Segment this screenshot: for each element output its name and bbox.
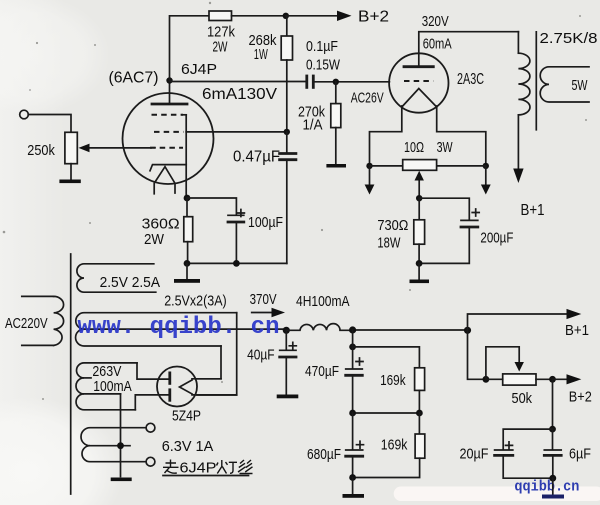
wire plate to coupling cap bbox=[170, 81, 307, 83]
ground (cathode bus) bbox=[174, 279, 200, 283]
svg-text:680µF: 680µF bbox=[307, 446, 341, 463]
anode bar 2 (5Z4P) bbox=[168, 390, 171, 401]
svg-text:0.47µF: 0.47µF bbox=[233, 149, 280, 166]
wire cap to 2A3C grid bbox=[313, 81, 389, 83]
svg-text:6mA130V: 6mA130V bbox=[202, 86, 277, 103]
wire screen node to 268k/0.47uF junction bbox=[186, 131, 287, 133]
underline (Chinese note) bbox=[163, 475, 249, 477]
resistor 360R 2W (cathode) bbox=[184, 198, 193, 263]
OPT core line bbox=[535, 32, 537, 130]
svg-text:6J4P: 6J4P bbox=[181, 61, 217, 78]
svg-text:2.5Vx2(3A): 2.5Vx2(3A) bbox=[164, 293, 227, 310]
anode plate bar (6AC7) bbox=[152, 103, 187, 106]
wire filament bottom lead down to 5Z4P bbox=[197, 346, 221, 379]
svg-text:250k: 250k bbox=[27, 142, 55, 159]
svg-text:www. qqibb. cn: www. qqibb. cn bbox=[78, 314, 280, 341]
Chinese strokes: deng si bbox=[217, 460, 253, 474]
potentiometer 250k body bbox=[65, 132, 77, 163]
tube 6AC7/6J4P envelope circle bbox=[123, 93, 214, 184]
capacitor 680uF bbox=[346, 413, 363, 478]
wire hum pot left lead bbox=[370, 165, 403, 167]
plus mark (470uF) bbox=[356, 358, 363, 365]
svg-text:(6AC7): (6AC7) bbox=[109, 70, 159, 87]
svg-text:5Z4P: 5Z4P bbox=[172, 408, 201, 425]
arrow down (filament supply left) bbox=[365, 166, 375, 195]
ground (filter ladder) bbox=[343, 494, 365, 498]
filament (2A3C) bbox=[402, 89, 437, 108]
resistor 127k 2W body bbox=[209, 11, 232, 21]
wire cathode return bus bbox=[187, 262, 287, 264]
node hum pot left bbox=[366, 163, 372, 169]
arrow 370V (right) bbox=[252, 308, 285, 318]
wire ground stub (bias) bbox=[418, 263, 420, 279]
winding 6.3V 1A (6J4P heater) bbox=[81, 428, 146, 462]
resistor 268k 1W (vertical) bbox=[281, 16, 292, 132]
node wiper 10R bbox=[416, 195, 422, 201]
plus mark (40uF) bbox=[289, 342, 296, 349]
paper specks bbox=[3, 2, 587, 400]
hum pot wiper arrow (up) bbox=[415, 171, 424, 198]
wire pot bottom lead bbox=[70, 164, 72, 180]
terminal circle 6.3V bottom bbox=[146, 457, 155, 466]
plus mark (200uF) bbox=[472, 209, 479, 216]
potentiometer 50k body bbox=[503, 374, 536, 385]
wire 127k to B+2 node bbox=[232, 15, 286, 17]
node 50k left bbox=[483, 376, 490, 383]
wire 50k right lead bbox=[536, 378, 553, 380]
svg-text:1/A: 1/A bbox=[303, 117, 323, 134]
svg-text:18W: 18W bbox=[377, 235, 401, 252]
svg-text:4H100mA: 4H100mA bbox=[296, 293, 350, 310]
wire ground stub (cathode bus) bbox=[186, 263, 188, 279]
grid dashes g2 row (6AC7) bbox=[154, 131, 184, 133]
wire wiper to 200uF bbox=[419, 198, 469, 220]
node cathode bus left bbox=[184, 260, 191, 267]
wire main B+ line bbox=[353, 329, 468, 331]
wire ground stub (output filter) bbox=[552, 478, 554, 494]
svg-text:AC26V: AC26V bbox=[351, 90, 384, 107]
wire riser down to 50k bbox=[468, 330, 486, 379]
svg-text:2W: 2W bbox=[213, 39, 229, 56]
svg-text:2.5V 2.5A: 2.5V 2.5A bbox=[100, 274, 160, 291]
svg-text:470µF: 470µF bbox=[305, 363, 339, 380]
plus mark (100uF) bbox=[237, 210, 244, 217]
wire filament lower lead (5Z4P) bbox=[192, 394, 237, 396]
wire mid rung bbox=[353, 412, 420, 414]
svg-text:20µF: 20µF bbox=[460, 446, 489, 463]
node plate 6AC7 bbox=[166, 77, 172, 83]
svg-text:6µF: 6µF bbox=[569, 446, 591, 463]
output transformer primary winding bbox=[518, 32, 530, 115]
node 6.3V centre tap bbox=[117, 442, 124, 449]
input terminal bbox=[20, 110, 29, 119]
ground (40uF) bbox=[277, 395, 299, 399]
winding 263V 100mA (HT) bbox=[76, 363, 137, 410]
node mid rung right bbox=[416, 410, 423, 417]
filament left leg to hum pot bbox=[370, 106, 402, 166]
svg-text:100mA: 100mA bbox=[93, 378, 131, 395]
wire 20uF loop from B+2 node bbox=[552, 379, 554, 429]
node 680uF bottom bbox=[349, 474, 356, 481]
svg-text:3W: 3W bbox=[437, 139, 454, 156]
heater filament (6AC7) bbox=[154, 167, 175, 194]
svg-text:2W: 2W bbox=[144, 231, 165, 248]
winding 2.5V 2.5A (2A3 filament) bbox=[77, 264, 156, 292]
svg-text:60mA: 60mA bbox=[423, 35, 452, 52]
tube 5Z4P envelope circle bbox=[157, 367, 197, 407]
node rectifier output / 40uF bbox=[283, 327, 290, 334]
node grid 2A3C bbox=[333, 79, 339, 85]
Chinese note: to 6J4P heater (drawn strokes) bbox=[163, 460, 179, 474]
resistor 169k upper bbox=[415, 368, 425, 413]
arrow to B+2 (top) bbox=[286, 11, 352, 21]
grid dashes (2A3C) bbox=[404, 80, 433, 82]
node screen junction bbox=[284, 129, 290, 135]
arrow down to B+1 (OPT) bbox=[513, 115, 523, 183]
svg-text:169k: 169k bbox=[380, 372, 406, 389]
capacitor 6uF bbox=[544, 429, 561, 478]
svg-text:6J4P: 6J4P bbox=[180, 460, 217, 477]
node choke out bbox=[349, 326, 356, 333]
wire input to pot top bbox=[28, 115, 71, 133]
pot 250k wiper arrow to grid wire bbox=[79, 144, 152, 153]
ground (transformer centre taps) bbox=[111, 478, 132, 482]
capacitor 200uF bbox=[419, 220, 478, 263]
wire filament top lead down to 5Z4P bbox=[197, 313, 237, 395]
potentiometer 10R 3W body bbox=[403, 160, 437, 171]
resistor 270k 1/A (grid leak) bbox=[331, 82, 341, 164]
node cathode bus right bbox=[233, 260, 240, 267]
svg-text:200µF: 200µF bbox=[480, 230, 513, 247]
wire plate node up to B+2 rail bbox=[170, 16, 210, 81]
svg-text:0.15W: 0.15W bbox=[306, 57, 341, 74]
plus mark (20uF) bbox=[506, 442, 513, 449]
node 20uF loop top bbox=[549, 426, 556, 433]
svg-text:AC220V: AC220V bbox=[5, 315, 48, 332]
output transformer secondary winding bbox=[540, 67, 589, 102]
ground (bias network) bbox=[410, 280, 430, 284]
svg-text:5W: 5W bbox=[572, 77, 589, 94]
wire HT centre tap down to ground bbox=[120, 394, 122, 477]
svg-text:169k: 169k bbox=[381, 437, 408, 454]
wire 50k left lead bbox=[486, 378, 503, 380]
svg-text:360Ω: 360Ω bbox=[142, 216, 180, 233]
tube 2A3C envelope circle bbox=[389, 53, 448, 112]
svg-text:40µF: 40µF bbox=[247, 347, 275, 364]
stub g3 to internal vertical bbox=[182, 114, 186, 116]
wire HT bottom lead to plate 2 bbox=[135, 395, 169, 410]
terminal circle 6.3V top bbox=[146, 423, 155, 432]
svg-text:2.75K/8: 2.75K/8 bbox=[540, 30, 598, 47]
svg-text:730Ω: 730Ω bbox=[377, 217, 408, 234]
node hum pot right bbox=[483, 163, 489, 169]
arrow to B+1 (right) bbox=[468, 309, 582, 330]
wire cathode to 100uF bbox=[187, 198, 236, 215]
node cathode 6AC7 bbox=[184, 195, 191, 202]
node output filter bottom bbox=[549, 475, 556, 482]
svg-text:0.1µF: 0.1µF bbox=[306, 38, 338, 55]
plate lead up to node bbox=[169, 81, 171, 105]
filament right leg to hum pot bbox=[437, 106, 486, 166]
arrow to B+2 (right) bbox=[553, 374, 582, 384]
cathode sleeve line (6AC7) bbox=[150, 165, 186, 171]
filament chevron (5Z4P) bbox=[180, 380, 193, 394]
svg-text:100µF: 100µF bbox=[248, 214, 283, 231]
choke 4H100mA bbox=[286, 324, 352, 331]
svg-text:B+1: B+1 bbox=[565, 322, 589, 339]
50k wiper loop and arrow bbox=[486, 347, 524, 380]
node B+2 rail bbox=[283, 13, 289, 19]
grid dashes g3 row (6AC7) bbox=[152, 114, 184, 116]
capacitor 20uF bbox=[495, 429, 553, 478]
svg-text:320V: 320V bbox=[422, 13, 449, 30]
svg-text:6.3V 1A: 6.3V 1A bbox=[162, 438, 214, 455]
white band (bottom watermark) bbox=[394, 487, 600, 502]
ground (pot 250k) bbox=[59, 180, 80, 184]
svg-text:370V: 370V bbox=[250, 291, 277, 308]
wire filament upper lead (5Z4P) bbox=[192, 378, 221, 380]
resistor 730R 18W (bias) bbox=[414, 198, 425, 263]
node mid rung left bbox=[349, 410, 356, 417]
capacitor 100uF (cathode bypass) bbox=[228, 215, 244, 263]
svg-text:B+1: B+1 bbox=[521, 202, 545, 219]
capacitor 0.1uF 0.15W (coupling) bbox=[307, 76, 314, 87]
svg-text:10Ω: 10Ω bbox=[404, 139, 424, 156]
wire grid dashes lead-in (solid part inside tube) bbox=[151, 147, 155, 149]
primary winding AC220V bbox=[22, 296, 64, 345]
power transformer core line bbox=[70, 254, 72, 494]
plus mark (680uF) bbox=[357, 441, 364, 448]
svg-text:B+2: B+2 bbox=[569, 389, 592, 406]
svg-text:50k: 50k bbox=[512, 390, 533, 407]
wire 470uF node to 169k bbox=[353, 347, 420, 368]
anode bar 1 (5Z4P) bbox=[168, 373, 171, 384]
resistor 169k lower bbox=[353, 413, 425, 478]
anode plate bar (2A3C) bbox=[404, 65, 433, 68]
svg-text:1W: 1W bbox=[254, 46, 269, 63]
wire B+ line down to 470uF node bbox=[352, 330, 354, 347]
node B+1 riser bbox=[464, 327, 471, 334]
node bias bottom bbox=[416, 260, 423, 267]
wire ground stub (680uF) bbox=[352, 478, 354, 495]
capacitor 470uF bbox=[346, 347, 363, 413]
svg-text:2A3C: 2A3C bbox=[457, 71, 484, 88]
svg-text:B+2: B+2 bbox=[358, 9, 389, 26]
plate lead and rail to OPT bbox=[419, 32, 519, 67]
ground (270k) bbox=[326, 164, 346, 168]
arrow down (filament supply right) bbox=[481, 166, 491, 195]
capacitor 40uF bbox=[280, 330, 296, 394]
node B+2 out bbox=[549, 376, 556, 383]
svg-text:qqibb.cn: qqibb.cn bbox=[514, 480, 579, 496]
ground (output filter, navy tinted) bbox=[542, 495, 564, 499]
wire hum pot right lead bbox=[437, 165, 486, 167]
wire HT top lead to plate 1 bbox=[137, 363, 169, 379]
node 470uF top bbox=[349, 344, 356, 351]
internal shield vertical (6AC7) bbox=[185, 115, 187, 198]
capacitor 0.47uF bbox=[280, 132, 296, 264]
winding 2.5Vx2(3A) (rectifier filament, centre-tapped) bbox=[76, 313, 287, 346]
grid dashes g1 row (6AC7) bbox=[150, 147, 183, 149]
